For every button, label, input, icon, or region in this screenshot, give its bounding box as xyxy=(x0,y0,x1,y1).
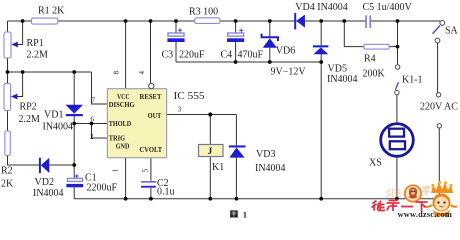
svg-text:XS: XS xyxy=(369,157,382,168)
switch SA xyxy=(440,21,445,26)
wire R4 loop xyxy=(344,21,397,65)
capacitor C4 xyxy=(239,29,243,33)
wire top rail xyxy=(8,20,441,22)
wire mid-left horizontal node xyxy=(8,72,108,104)
switch K1-1 xyxy=(395,65,400,70)
wire pin5 C2 drop xyxy=(150,158,152,199)
svg-text:200K: 200K xyxy=(363,69,386,80)
svg-text:C4: C4 xyxy=(221,50,233,61)
capacitor C5 xyxy=(365,15,367,28)
svg-text:7: 7 xyxy=(92,97,96,105)
svg-text:THOLD: THOLD xyxy=(109,120,131,128)
svg-text:R3 100: R3 100 xyxy=(189,7,218,18)
svg-text:VD2: VD2 xyxy=(35,177,54,188)
wire RP2 wiper xyxy=(17,72,23,97)
svg-text:IN4004: IN4004 xyxy=(43,121,74,132)
wire pin8 VCC drop xyxy=(125,21,127,89)
wire K1-1 to XS xyxy=(396,95,398,199)
potentiometer RP1 xyxy=(4,32,11,58)
svg-text:4: 4 xyxy=(138,71,146,75)
wire pin6 stub xyxy=(74,123,107,125)
capacitor C3 xyxy=(178,28,182,32)
watermark mascot xyxy=(425,181,458,217)
svg-text:IN4004: IN4004 xyxy=(33,188,64,199)
resistor R2 xyxy=(5,131,10,156)
caption figure 1 xyxy=(230,210,238,218)
wire SA to AC terminal xyxy=(437,43,439,93)
wire C4 drop xyxy=(235,21,237,62)
wire pin2 stub xyxy=(92,124,108,139)
watermark badge xyxy=(405,185,421,201)
diode VD1 xyxy=(66,105,84,114)
svg-text:www.dzsc.com: www.dzsc.com xyxy=(398,210,453,219)
svg-text:RP1: RP1 xyxy=(27,38,44,49)
svg-text:OUT: OUT xyxy=(148,112,162,120)
wire bottom rail xyxy=(74,198,439,200)
wire VD6 drop xyxy=(269,21,271,62)
svg-text:RESET: RESET xyxy=(140,93,162,101)
wire left vertical chain xyxy=(8,21,75,165)
svg-text:1: 1 xyxy=(243,209,247,219)
svg-text:1: 1 xyxy=(112,168,120,172)
wire pin4 RESET drop xyxy=(150,21,152,83)
svg-text:J: J xyxy=(208,147,213,157)
wire pin1 GND drop xyxy=(125,158,127,199)
svg-text:GND: GND xyxy=(116,142,130,150)
wire C3 drop xyxy=(175,21,177,62)
svg-text:VD4 IN4004: VD4 IN4004 xyxy=(295,2,348,13)
svg-text:VCC: VCC xyxy=(117,93,130,101)
svg-text:2.2M: 2.2M xyxy=(19,114,41,125)
svg-text:SA: SA xyxy=(445,26,459,37)
svg-text:0.1u: 0.1u xyxy=(157,187,175,198)
svg-text:220uF: 220uF xyxy=(179,50,205,61)
svg-text:R1 2K: R1 2K xyxy=(38,6,65,17)
wire OUT pin3 xyxy=(167,114,237,116)
svg-text:220V AC: 220V AC xyxy=(420,102,458,113)
svg-text:C3: C3 xyxy=(162,50,174,61)
svg-text:IN4004: IN4004 xyxy=(255,163,286,174)
svg-text:K1-1: K1-1 xyxy=(402,75,423,86)
node 220V AC terminals xyxy=(436,93,440,97)
op-amp U1 IC 555 box xyxy=(107,89,166,158)
relay K1 box J xyxy=(199,145,224,157)
wire 9V rail xyxy=(176,61,321,63)
wire VD1 branch xyxy=(73,72,75,199)
resistor R3 xyxy=(195,18,220,24)
diode VD2 xyxy=(39,158,41,173)
svg-text:VD6: VD6 xyxy=(276,46,295,57)
svg-text:CVOLT: CVOLT xyxy=(140,146,163,154)
node pin 4 circle xyxy=(149,83,154,88)
svg-text:VD5: VD5 xyxy=(328,64,347,75)
svg-text:470uF: 470uF xyxy=(238,50,264,61)
resistor R1 xyxy=(32,18,58,24)
potentiometer RP2 xyxy=(4,84,11,111)
wire RP1 wiper xyxy=(17,21,23,45)
watermark text red xyxy=(372,201,428,212)
svg-text:8: 8 xyxy=(113,71,121,75)
diode VD6 zener xyxy=(262,34,278,41)
diode VD4 xyxy=(294,13,296,29)
svg-text:2K: 2K xyxy=(1,179,14,190)
svg-text:2.2M: 2.2M xyxy=(27,50,49,61)
svg-text:2: 2 xyxy=(90,133,94,141)
wire VD3 branch xyxy=(235,115,237,199)
svg-text:K1: K1 xyxy=(212,162,224,173)
svg-text:VD1: VD1 xyxy=(44,110,63,121)
svg-text:DISCHG: DISCHG xyxy=(109,101,135,109)
svg-text:C5 1u/400V: C5 1u/400V xyxy=(363,2,413,13)
wire AC lower to rail xyxy=(438,128,440,199)
svg-text:3: 3 xyxy=(178,105,182,113)
svg-text:RP2: RP2 xyxy=(20,102,37,113)
capacitor C1 xyxy=(75,174,79,178)
svg-text:IN4004: IN4004 xyxy=(327,74,358,85)
svg-text:2200uF: 2200uF xyxy=(87,183,118,194)
diode VD5 xyxy=(313,45,329,47)
wire VD5 drop long xyxy=(320,21,322,199)
svg-text:R4: R4 xyxy=(364,54,376,65)
svg-text:VD3: VD3 xyxy=(256,149,275,160)
svg-text:IC 555: IC 555 xyxy=(174,91,205,102)
capacitor C2 xyxy=(141,181,156,183)
svg-text:5: 5 xyxy=(142,168,150,172)
resistor R4 xyxy=(364,44,389,49)
svg-text:R2: R2 xyxy=(1,166,13,177)
diode VD3 xyxy=(229,145,246,147)
watermark ghost logo xyxy=(387,186,432,200)
svg-text:9V−12V: 9V−12V xyxy=(271,67,307,78)
socket XS xyxy=(381,124,414,157)
wire J relay branch xyxy=(209,115,211,199)
